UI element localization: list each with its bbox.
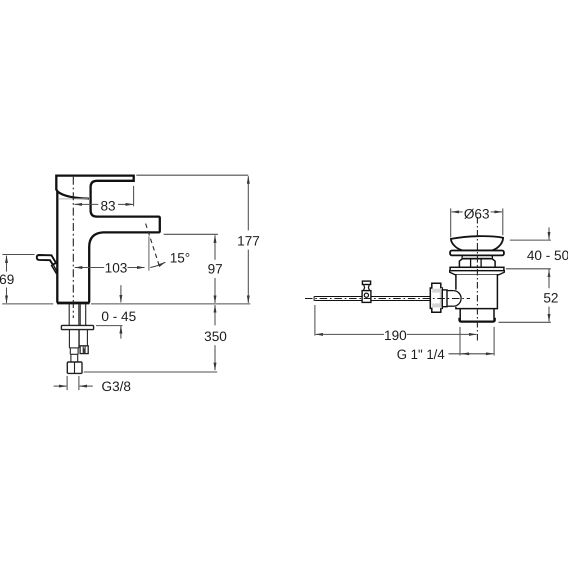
- svg-text:103: 103: [105, 261, 128, 276]
- svg-text:Ø63: Ø63: [464, 207, 490, 222]
- svg-text:177: 177: [237, 234, 260, 249]
- svg-text:350: 350: [204, 329, 227, 344]
- svg-text:69: 69: [0, 272, 14, 287]
- svg-text:G3/8: G3/8: [102, 379, 131, 394]
- svg-text:83: 83: [100, 198, 115, 213]
- svg-text:G 1" 1/4: G 1" 1/4: [397, 347, 445, 362]
- svg-text:52: 52: [543, 290, 558, 305]
- svg-text:0 - 45: 0 - 45: [101, 309, 136, 324]
- svg-text:15°: 15°: [170, 251, 191, 266]
- svg-text:97: 97: [208, 261, 223, 276]
- svg-text:190: 190: [384, 328, 407, 343]
- svg-text:40 - 50: 40 - 50: [527, 248, 568, 263]
